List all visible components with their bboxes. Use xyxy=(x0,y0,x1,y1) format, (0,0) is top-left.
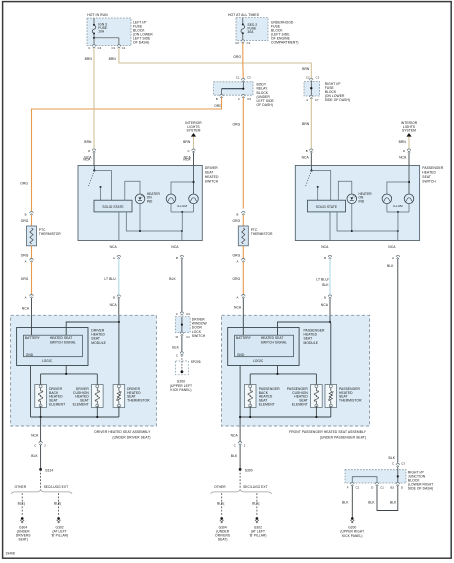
svg-text:BLK: BLK xyxy=(342,501,349,505)
svg-text:LT BLU: LT BLU xyxy=(104,277,116,281)
passenger ground chain S300 xyxy=(239,426,241,442)
svg-text:ILLUM: ILLUM xyxy=(393,204,403,208)
svg-text:BLK: BLK xyxy=(172,345,179,349)
wire to right pin inside fuse block xyxy=(94,37,119,39)
right I/P fuse bottom pin xyxy=(310,95,313,98)
svg-text:FRONT PASSENGER HEATED SEAT AS: FRONT PASSENGER HEATED SEAT ASSEMBLY xyxy=(289,430,367,434)
svg-text:LOGIC: LOGIC xyxy=(253,359,264,363)
svg-text:BLK: BLK xyxy=(31,454,38,458)
svg-text:SEC/LUGG EXT: SEC/LUGG EXT xyxy=(44,485,69,489)
svg-text:C3: C3 xyxy=(247,97,251,101)
svg-text:ELEMENT: ELEMENT xyxy=(292,403,308,407)
driver ground chain S314 xyxy=(40,426,42,442)
svg-text:NCA: NCA xyxy=(110,245,118,249)
svg-text:A: A xyxy=(25,295,27,299)
svg-text:ORG: ORG xyxy=(233,55,241,59)
svg-text:BRN: BRN xyxy=(302,67,310,71)
svg-text:ELEMENT: ELEMENT xyxy=(73,403,89,407)
svg-text:C: C xyxy=(392,462,394,466)
svg-text:B: B xyxy=(25,212,27,216)
svg-text:S300: S300 xyxy=(245,469,253,473)
svg-text:C1: C1 xyxy=(112,46,116,50)
svg-text:NCA: NCA xyxy=(231,434,239,438)
svg-text:'B' PILLAR): 'B' PILLAR) xyxy=(249,534,266,538)
svg-text:C1: C1 xyxy=(316,76,320,80)
relay contact xyxy=(242,82,244,89)
svg-text:(UNDER DRIVER SEAT): (UNDER DRIVER SEAT) xyxy=(112,435,150,439)
svg-text:A: A xyxy=(236,260,238,264)
front passenger heated seat assembly xyxy=(222,315,370,426)
svg-text:ILLUM: ILLUM xyxy=(177,204,187,208)
svg-text:THERMISTOR: THERMISTOR xyxy=(339,399,362,403)
svg-text:C1: C1 xyxy=(247,41,251,45)
svg-text:SWITCH: SWITCH xyxy=(422,179,436,183)
svg-text:D: D xyxy=(371,485,373,489)
svg-text:C: C xyxy=(34,443,36,447)
svg-text:BLK: BLK xyxy=(390,501,397,505)
svg-text:SEC/LUGG EXT: SEC/LUGG EXT xyxy=(243,485,268,489)
svg-text:C6: C6 xyxy=(235,41,239,45)
svg-text:C3: C3 xyxy=(186,312,190,316)
svg-text:D: D xyxy=(401,485,403,489)
PTC thermistor left chain xyxy=(30,211,33,214)
svg-text:C: C xyxy=(187,149,189,153)
svg-text:10A: 10A xyxy=(98,29,105,33)
driver seat heated switch xyxy=(78,166,202,241)
svg-text:IND: IND xyxy=(147,200,153,204)
wire BRN right fuse to passenger switch xyxy=(310,98,312,149)
svg-text:C: C xyxy=(234,443,236,447)
svg-text:ORG: ORG xyxy=(21,219,29,223)
svg-text:NCA: NCA xyxy=(321,303,329,307)
svg-text:ORG: ORG xyxy=(20,182,28,186)
svg-text:'B' PILLAR): 'B' PILLAR) xyxy=(51,534,68,538)
svg-text:NCA: NCA xyxy=(31,434,39,438)
svg-text:OTHER: OTHER xyxy=(214,485,226,489)
svg-text:BLK(: BLK( xyxy=(217,501,225,505)
svg-text:SIDE OF DASH): SIDE OF DASH) xyxy=(325,98,350,102)
svg-text:BRN: BRN xyxy=(183,140,191,144)
svg-text:THERMISTOR: THERMISTOR xyxy=(251,232,273,236)
pin C4 xyxy=(92,45,95,48)
svg-text:A: A xyxy=(25,260,27,264)
svg-text:MODULE: MODULE xyxy=(91,341,106,345)
svg-text:BRN: BRN xyxy=(84,140,92,144)
svg-text:SEAT): SEAT) xyxy=(18,538,28,542)
svg-text:HEATED: HEATED xyxy=(205,175,219,179)
svg-text:D: D xyxy=(88,149,90,153)
driver heated seat assembly xyxy=(11,315,157,426)
svg-text:C: C xyxy=(176,312,178,316)
svg-text:SEAT: SEAT xyxy=(205,171,214,175)
svg-text:S314: S314 xyxy=(45,469,53,473)
relay pin B xyxy=(220,94,223,98)
svg-text:SWITCH SIGNAL: SWITCH SIGNAL xyxy=(50,340,76,344)
svg-text:GND: GND xyxy=(237,353,245,357)
svg-text:SWITCH: SWITCH xyxy=(205,179,219,183)
svg-text:BRN: BRN xyxy=(85,57,93,61)
svg-text:SOLID STATE: SOLID STATE xyxy=(316,205,337,209)
PTC thermistor middle chain xyxy=(242,211,245,215)
svg-text:ORG: ORG xyxy=(233,254,241,258)
svg-text:SYSTEM: SYSTEM xyxy=(186,129,200,133)
svg-text:BATTERY: BATTERY xyxy=(25,336,41,340)
svg-text:BLK: BLK xyxy=(322,283,329,287)
svg-text:A: A xyxy=(306,98,308,102)
svg-text:30A: 30A xyxy=(248,30,255,34)
svg-text:ORG: ORG xyxy=(233,123,241,127)
svg-text:BATTERY: BATTERY xyxy=(236,336,252,340)
left I/P fuse block box xyxy=(87,18,131,46)
svg-text:BLK(: BLK( xyxy=(252,501,260,505)
svg-text:SOLID STATE: SOLID STATE xyxy=(102,205,123,209)
svg-text:ELEMENT: ELEMENT xyxy=(259,403,275,407)
svg-text:HOT AT ALL TIMES: HOT AT ALL TIMES xyxy=(228,13,260,17)
right I/P fuse block box xyxy=(304,82,320,97)
svg-text:NCA: NCA xyxy=(110,303,118,307)
ground G200 right xyxy=(351,486,353,517)
svg-text:C1: C1 xyxy=(380,485,384,489)
svg-text:B2: B2 xyxy=(391,485,395,489)
svg-text:C4: C4 xyxy=(98,46,102,50)
svg-text:LOGIC: LOGIC xyxy=(42,359,53,363)
svg-text:OF DASH): OF DASH) xyxy=(133,41,149,45)
svg-text:KICK PANEL): KICK PANEL) xyxy=(342,534,362,538)
svg-text:LT BLU/: LT BLU/ xyxy=(316,277,328,281)
driver window door lock switch xyxy=(175,317,190,333)
svg-text:OTHER: OTHER xyxy=(15,485,27,489)
svg-text:C1: C1 xyxy=(186,335,190,339)
svg-text:C3: C3 xyxy=(401,462,405,466)
svg-text:KICK PANEL): KICK PANEL) xyxy=(170,388,191,392)
relay top pin C13 xyxy=(242,78,245,82)
svg-text:C7: C7 xyxy=(315,98,319,102)
svg-text:A: A xyxy=(113,256,115,260)
svg-text:F: F xyxy=(347,485,349,489)
svg-text:HOT IN RUN: HOT IN RUN xyxy=(87,13,108,17)
svg-text:C: C xyxy=(88,46,90,50)
svg-text:NCA: NCA xyxy=(388,245,396,249)
svg-text:D: D xyxy=(403,149,405,153)
svg-text:GND: GND xyxy=(26,353,34,357)
svg-text:DRIVER HEATED SEAT ASSEMBLY: DRIVER HEATED SEAT ASSEMBLY xyxy=(94,430,151,434)
svg-text:SWITCH SIGNAL: SWITCH SIGNAL xyxy=(261,340,287,344)
fuse SEO 2 xyxy=(242,18,244,25)
svg-text:B: B xyxy=(324,256,326,260)
svg-text:MODULE: MODULE xyxy=(304,341,319,345)
svg-text:BLK: BLK xyxy=(368,501,375,505)
svg-text:COMPARTMENT): COMPARTMENT) xyxy=(271,41,299,45)
svg-text:19408: 19408 xyxy=(6,552,15,556)
svg-text:THERMISTOR: THERMISTOR xyxy=(39,232,61,236)
svg-text:BRN: BRN xyxy=(109,57,117,61)
connector passenger feed xyxy=(310,149,313,152)
svg-text:NCA: NCA xyxy=(399,156,407,160)
svg-text:BLK: BLK xyxy=(389,456,396,460)
svg-text:ORG: ORG xyxy=(21,277,29,281)
junction block bottom pins xyxy=(351,482,354,485)
pin C1 xyxy=(117,45,120,48)
svg-text:BLK: BLK xyxy=(169,277,176,281)
svg-text:ELEMENT: ELEMENT xyxy=(49,403,65,407)
svg-text:NCA: NCA xyxy=(83,157,91,161)
svg-text:SEAT): SEAT) xyxy=(218,538,228,542)
svg-text:SYSTEM: SYSTEM xyxy=(402,129,416,133)
svg-text:NCA: NCA xyxy=(302,155,310,159)
splice pack SP205 / ground G200 xyxy=(176,361,189,375)
pin C6 xyxy=(241,40,244,43)
svg-text:C2: C2 xyxy=(356,485,360,489)
svg-text:BLK: BLK xyxy=(231,454,238,458)
svg-text:IND: IND xyxy=(359,200,365,204)
svg-text:NCA: NCA xyxy=(321,245,329,249)
svg-text:B: B xyxy=(216,97,218,101)
svg-text:B: B xyxy=(324,296,326,300)
svg-text:SP205: SP205 xyxy=(191,360,201,364)
svg-text:NCA: NCA xyxy=(22,307,30,311)
svg-text:(UNDER PASSENGER SEAT): (UNDER PASSENGER SEAT) xyxy=(320,435,366,439)
svg-text:SEAT: SEAT xyxy=(422,175,431,179)
svg-text:PASSENGER: PASSENGER xyxy=(422,166,444,170)
fuse IGN 3 xyxy=(93,18,95,25)
svg-text:A: A xyxy=(392,256,394,260)
svg-text:NCA: NCA xyxy=(171,245,179,249)
svg-text:DRIVER: DRIVER xyxy=(205,166,218,170)
passenger heated seat switch xyxy=(295,166,419,241)
svg-text:B: B xyxy=(113,296,115,300)
svg-text:NCA: NCA xyxy=(234,306,242,310)
svg-text:B: B xyxy=(306,149,308,153)
body relay block box xyxy=(214,82,253,95)
svg-text:ORG: ORG xyxy=(233,219,241,223)
connector C201 driver feed xyxy=(92,149,95,152)
U loop wires xyxy=(377,486,398,511)
svg-text:HEATED: HEATED xyxy=(422,171,436,175)
wire BRN to driver switch xyxy=(93,49,95,150)
svg-text:SIDE OF DASH): SIDE OF DASH) xyxy=(408,486,433,490)
svg-text:C1: C1 xyxy=(236,76,240,80)
svg-text:B: B xyxy=(176,256,178,260)
svg-text:ORG: ORG xyxy=(233,277,241,281)
svg-text:C2: C2 xyxy=(306,76,310,80)
svg-text:A: A xyxy=(236,295,238,299)
svg-text:C1: C1 xyxy=(122,46,126,50)
svg-text:C3: C3 xyxy=(247,76,251,80)
svg-text:OF DASH): OF DASH) xyxy=(257,103,273,107)
svg-text:ORG: ORG xyxy=(21,254,29,258)
right I/P fuse top pin xyxy=(310,78,313,81)
relay pin C3 xyxy=(242,94,245,98)
svg-text:BLK: BLK xyxy=(387,264,394,268)
svg-text:C: C xyxy=(176,353,178,357)
svg-text:NCA: NCA xyxy=(183,157,191,161)
underhood fuse block box xyxy=(236,18,268,41)
svg-text:B: B xyxy=(236,212,238,216)
svg-text:THERMISTOR: THERMISTOR xyxy=(127,399,150,403)
wire ORG relay C3 down xyxy=(242,97,244,208)
svg-text:BRN: BRN xyxy=(399,140,407,144)
svg-text:BLK(: BLK( xyxy=(54,501,62,505)
svg-text:BRN: BRN xyxy=(302,122,310,126)
svg-text:SWITCH: SWITCH xyxy=(192,334,206,338)
svg-text:C: C xyxy=(238,97,240,101)
svg-text:BLK(: BLK( xyxy=(18,501,26,505)
